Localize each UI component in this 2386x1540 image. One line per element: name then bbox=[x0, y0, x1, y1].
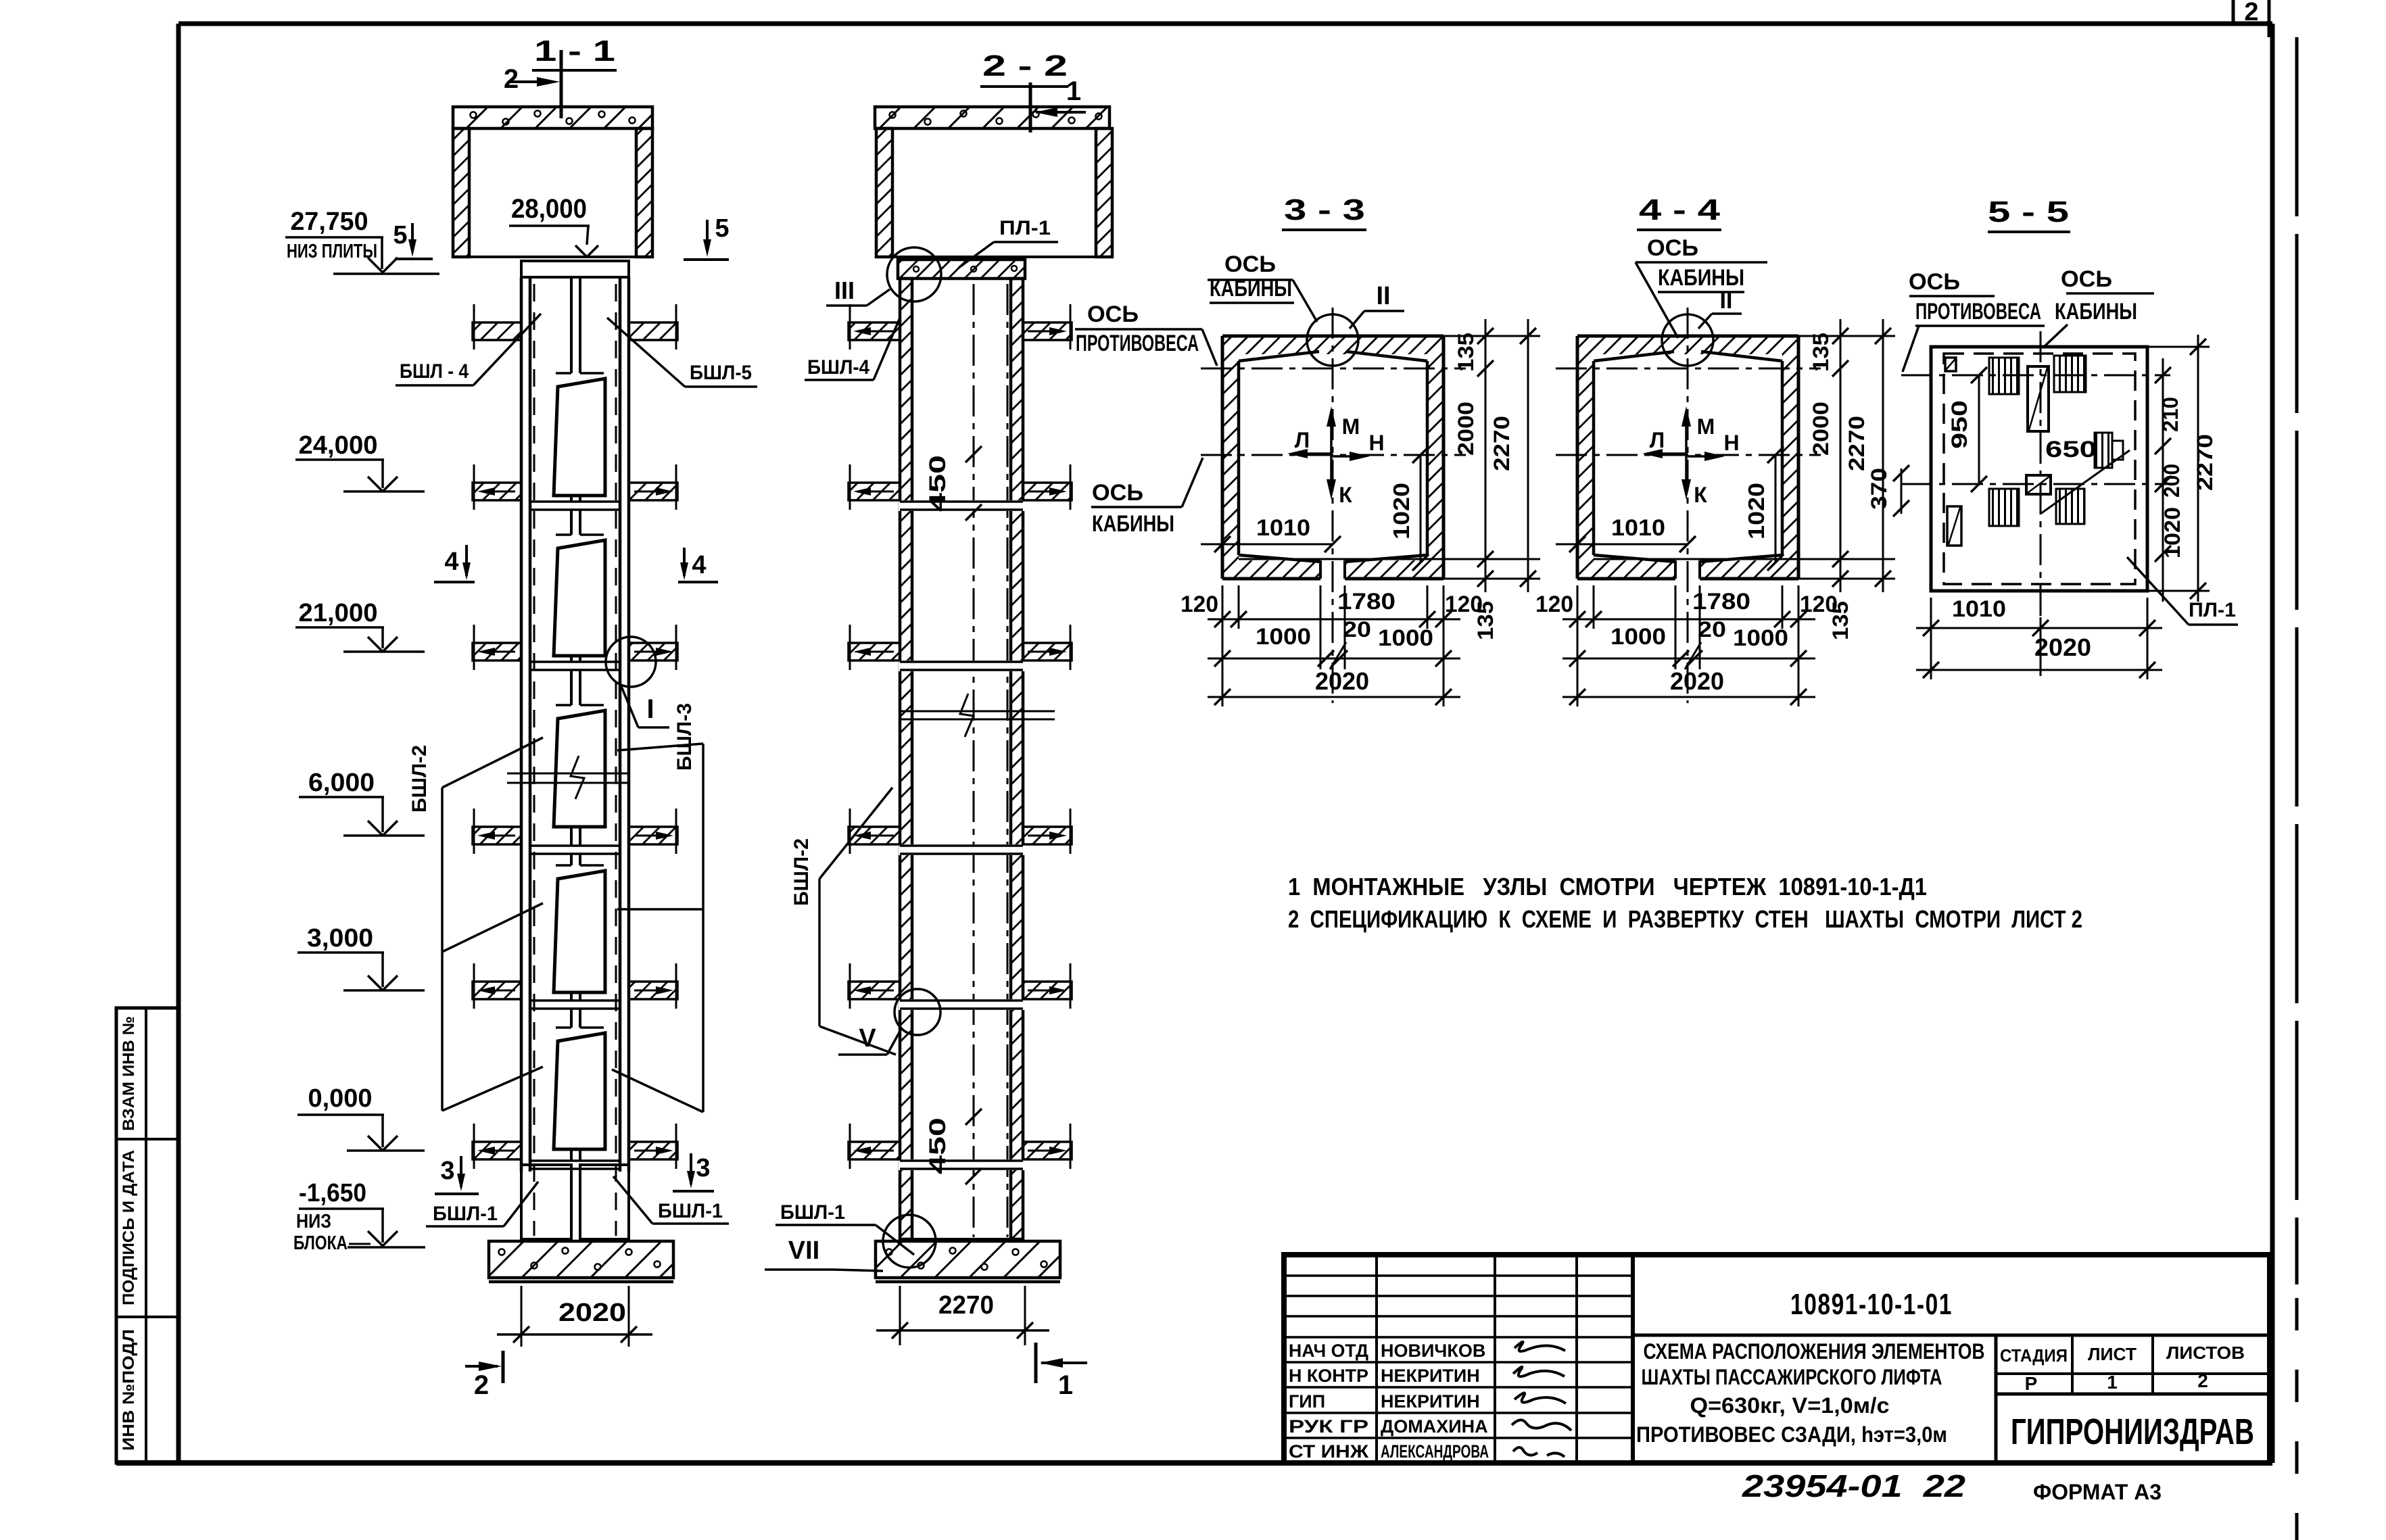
svg-text:2270: 2270 bbox=[938, 1291, 994, 1320]
svg-text:2000: 2000 bbox=[1809, 402, 1833, 456]
svg-text:1000: 1000 bbox=[1256, 624, 1311, 650]
machine room 1-1 left wall bbox=[453, 128, 469, 257]
svg-text:3 - 3: 3 - 3 bbox=[1284, 193, 1365, 226]
svg-text:ОСЬ: ОСЬ bbox=[1087, 302, 1139, 327]
svg-text:РУК ГР: РУК ГР bbox=[1289, 1416, 1368, 1437]
svg-text:21,000: 21,000 bbox=[299, 599, 378, 627]
svg-text:120: 120 bbox=[1800, 592, 1838, 617]
svg-text:5: 5 bbox=[393, 221, 407, 249]
machine room 2-2 floor line bbox=[892, 256, 1096, 258]
svg-text:НАЧ ОТД: НАЧ ОТД bbox=[1289, 1341, 1368, 1361]
svg-text:23954-01 22: 23954-01 22 bbox=[1742, 1468, 1966, 1503]
dimension 2020 below section 1-1 bbox=[521, 1286, 523, 1347]
svg-text:1010: 1010 bbox=[1611, 515, 1665, 541]
svg-text:НЕКРИТИН: НЕКРИТИН bbox=[1381, 1366, 1480, 1386]
svg-text:1020: 1020 bbox=[1744, 483, 1769, 539]
svg-text:БШЛ-5: БШЛ-5 bbox=[690, 362, 752, 384]
svg-text:3: 3 bbox=[440, 1157, 454, 1185]
svg-text:БШЛ-3: БШЛ-3 bbox=[673, 703, 696, 771]
svg-text:5 - 5: 5 - 5 bbox=[1988, 195, 2069, 228]
title block left rows bbox=[1284, 1274, 1633, 1277]
svg-text:М: М bbox=[1342, 414, 1360, 439]
detail circle VII bbox=[883, 1215, 936, 1268]
svg-text:1: 1 bbox=[1058, 1370, 1073, 1400]
shaft 2-2 right wall bbox=[1011, 279, 1023, 1239]
svg-text:Н: Н bbox=[1368, 431, 1384, 455]
shaft 2-2 left wall bbox=[900, 279, 912, 1239]
svg-text:ДОМАХИНА: ДОМАХИНА bbox=[1381, 1416, 1488, 1437]
shaft 2-2 block joints bbox=[899, 500, 1026, 511]
svg-text:2270: 2270 bbox=[1489, 416, 1514, 471]
svg-text:1 - 1: 1 - 1 bbox=[534, 34, 615, 68]
machine room 2-2 right wall bbox=[1096, 128, 1112, 257]
svg-text:28,000: 28,000 bbox=[511, 194, 587, 224]
signatures bbox=[1514, 1342, 1565, 1351]
svg-text:4 - 4: 4 - 4 bbox=[1639, 193, 1721, 226]
machine room 1-1 floor line bbox=[469, 256, 636, 258]
svg-text:БШЛ-1: БШЛ-1 bbox=[658, 1200, 723, 1222]
svg-text:БШЛ-1: БШЛ-1 bbox=[780, 1201, 845, 1224]
svg-text:НИЗ: НИЗ bbox=[296, 1211, 331, 1232]
bottom block 2-2 bbox=[912, 1238, 1011, 1241]
plan 3 - 3 counterweight axis bbox=[1201, 368, 1466, 370]
plan 4 - 4 cab axis cross bbox=[1556, 454, 1821, 456]
svg-text:2 - 2: 2 - 2 bbox=[982, 49, 1068, 82]
left margin stamp boxes bbox=[116, 1008, 178, 1463]
svg-text:Н: Н bbox=[1723, 431, 1739, 455]
title block outer bbox=[1284, 1255, 2270, 1463]
svg-text:20: 20 bbox=[1698, 617, 1726, 642]
svg-text:БШЛ-2: БШЛ-2 bbox=[790, 838, 813, 906]
svg-text:1 МОНТАЖНЫЕ УЗЛЫ СМОТРИ: 1 МОНТАЖНЫЕ УЗЛЫ СМОТРИ ЧЕРТЕЖ 10891-10-… bbox=[1288, 873, 1927, 900]
detail circle V bbox=[894, 989, 940, 1035]
svg-text:ГИПРОНИИЗДРАВ: ГИПРОНИИЗДРАВ bbox=[2011, 1412, 2254, 1452]
svg-text:Н КОНТР: Н КОНТР bbox=[1289, 1366, 1368, 1386]
svg-text:VII: VII bbox=[788, 1236, 819, 1265]
section cut marker 2 top bbox=[560, 50, 563, 118]
plan 5-5 right bracket 650 bbox=[2095, 433, 2112, 468]
svg-text:ОСЬ: ОСЬ bbox=[2061, 266, 2112, 292]
svg-text:1: 1 bbox=[2107, 1372, 2118, 1393]
shaft 1-1 right wall lines bbox=[619, 277, 622, 1172]
foundation slab 2-2 bbox=[876, 1241, 1060, 1278]
plan 3 - 3 cab axis cross bbox=[1201, 454, 1466, 456]
svg-text:I: I bbox=[646, 694, 654, 724]
machine room 1-1 right wall bbox=[636, 128, 652, 257]
plan 4 - 4 outer walls bbox=[1577, 336, 1798, 354]
title block middle split bbox=[1633, 1334, 2270, 1337]
svg-text:2020: 2020 bbox=[1315, 667, 1369, 695]
svg-text:27,750: 27,750 bbox=[291, 208, 368, 236]
svg-text:4: 4 bbox=[692, 551, 706, 579]
svg-text:КАБИНЫ: КАБИНЫ bbox=[1210, 276, 1292, 302]
axis lines cab and counterweight 2-2 bbox=[973, 284, 975, 1237]
svg-text:КАБИНЫ: КАБИНЫ bbox=[1092, 511, 1174, 537]
plan 5-5 center counterweight rail bbox=[2026, 475, 2051, 494]
svg-text:450: 450 bbox=[925, 1117, 951, 1174]
svg-text:2: 2 bbox=[504, 64, 519, 94]
svg-text:0,000: 0,000 bbox=[308, 1084, 373, 1113]
plan 3 - 3 outer walls bbox=[1222, 336, 1443, 354]
dimension 2270 below section 2-2 bbox=[899, 1286, 901, 1345]
svg-text:6,000: 6,000 bbox=[308, 769, 375, 797]
svg-text:20: 20 bbox=[1343, 617, 1371, 642]
svg-text:120: 120 bbox=[1535, 592, 1573, 617]
svg-text:Л: Л bbox=[1650, 428, 1665, 452]
svg-text:ЛИСТОВ: ЛИСТОВ bbox=[2166, 1343, 2245, 1363]
plan 3 - 3 detail circle II bbox=[1307, 314, 1358, 366]
svg-text:650: 650 bbox=[2045, 437, 2097, 462]
svg-text:5: 5 bbox=[715, 214, 729, 243]
svg-text:2: 2 bbox=[2244, 0, 2258, 26]
svg-text:ЛИСТ: ЛИСТ bbox=[2088, 1344, 2137, 1364]
svg-text:ПРОТИВОВЕСА: ПРОТИВОВЕСА bbox=[1915, 299, 2041, 324]
svg-text:ПОДПИСЬ И ДАТА: ПОДПИСЬ И ДАТА bbox=[120, 1150, 138, 1305]
svg-text:2020: 2020 bbox=[558, 1299, 626, 1327]
foundation slab 1-1 bbox=[489, 1241, 673, 1278]
plan 5-5 bottom dims bbox=[1930, 598, 1932, 679]
svg-text:ОСЬ: ОСЬ bbox=[1092, 480, 1143, 506]
svg-text:2: 2 bbox=[2197, 1370, 2208, 1391]
title block stadia list listov cells bbox=[1995, 1335, 1998, 1463]
svg-text:135: 135 bbox=[1454, 333, 1478, 372]
plan 4 - 4 counterweight axis bbox=[1556, 368, 1821, 370]
svg-text:НЕКРИТИН: НЕКРИТИН bbox=[1381, 1391, 1480, 1412]
svg-text:3: 3 bbox=[696, 1154, 710, 1182]
svg-text:ГИП: ГИП bbox=[1289, 1391, 1325, 1412]
svg-text:1010: 1010 bbox=[1952, 596, 2006, 622]
svg-text:2020: 2020 bbox=[2034, 633, 2091, 661]
title block verticals bbox=[1375, 1255, 1378, 1463]
svg-text:120: 120 bbox=[1445, 592, 1483, 617]
plan 5-5 right dims 210 200 1020 2270 bbox=[2147, 346, 2210, 348]
svg-text:КАБИНЫ: КАБИНЫ bbox=[2055, 299, 2137, 324]
svg-text:24,000: 24,000 bbox=[299, 431, 378, 460]
svg-text:ПРОТИВОВЕС СЗАДИ, hэт=3,0м: ПРОТИВОВЕС СЗАДИ, hэт=3,0м bbox=[1636, 1422, 1947, 1447]
plan 5-5 axes bbox=[1901, 375, 2170, 377]
svg-text:1020: 1020 bbox=[2160, 507, 2185, 558]
shaft 1-1 block joints bbox=[530, 500, 620, 503]
svg-text:2270: 2270 bbox=[1844, 416, 1869, 471]
svg-text:ФОРМАТ А3: ФОРМАТ А3 bbox=[2033, 1480, 2162, 1504]
svg-text:120: 120 bbox=[1180, 592, 1218, 617]
plan 3 - 3 bottom dims bbox=[1222, 585, 1224, 706]
svg-text:1: 1 bbox=[1066, 76, 1081, 106]
detail circle I bbox=[606, 637, 656, 687]
svg-text:1780: 1780 bbox=[1692, 589, 1750, 615]
svg-text:Q=630кг, V=1,0м/с: Q=630кг, V=1,0м/с bbox=[1690, 1393, 1890, 1418]
svg-text:ПРОТИВОВЕСА: ПРОТИВОВЕСА bbox=[1076, 331, 1199, 356]
svg-text:НИЗ ПЛИТЫ: НИЗ ПЛИТЫ bbox=[287, 241, 377, 262]
section cut marker 1 bottom bbox=[1034, 1343, 1038, 1383]
section cut marker 1 top bbox=[1029, 82, 1032, 133]
svg-text:Р: Р bbox=[2025, 1373, 2038, 1394]
svg-text:СХЕМА РАСПОЛОЖЕНИЯ ЭЛЕМЕНТОВ: СХЕМА РАСПОЛОЖЕНИЯ ЭЛЕМЕНТОВ bbox=[1644, 1339, 1985, 1364]
svg-text:ОСЬ: ОСЬ bbox=[1224, 251, 1276, 277]
svg-text:2: 2 bbox=[474, 1370, 489, 1400]
svg-text:1000: 1000 bbox=[1378, 625, 1433, 651]
break symbol across shaft 1-1 bbox=[507, 773, 630, 775]
plan 5-5 rail brackets bbox=[1989, 358, 2019, 394]
svg-text:III: III bbox=[834, 276, 855, 304]
page edge broken line right bbox=[2295, 37, 2299, 1284]
plan 4 - 4 inner faces bbox=[1594, 352, 1674, 361]
svg-text:К: К bbox=[1339, 483, 1352, 507]
svg-text:1010: 1010 bbox=[1256, 515, 1310, 541]
machine room 1-1 top slab bbox=[453, 107, 652, 128]
machine room 2-2 top slab bbox=[875, 107, 1110, 128]
BShL-1 bottom blocks 1-1 bbox=[521, 1165, 571, 1239]
svg-text:200: 200 bbox=[2160, 464, 2184, 498]
plan 3 - 3 right dims 135 2000 2270 bbox=[1443, 335, 1540, 337]
shaft 1-1 guide rail dashed lines bbox=[533, 284, 535, 1236]
svg-text:1020: 1020 bbox=[1389, 483, 1414, 539]
svg-text:ИНВ №ПОДЛ: ИНВ №ПОДЛ bbox=[120, 1329, 138, 1451]
shaft 1-1 door openings with leafs bbox=[570, 277, 573, 373]
svg-text:210: 210 bbox=[2158, 397, 2182, 432]
plan 4 - 4 bottom dims bbox=[1577, 585, 1579, 706]
detail circle III bbox=[887, 247, 941, 302]
break symbol across shaft 2-2 bbox=[899, 711, 1055, 713]
svg-text:2270: 2270 bbox=[2193, 434, 2217, 491]
section cut marker 2 bottom bbox=[502, 1351, 505, 1383]
plan 4 - 4 direction arrows L M N K bbox=[1685, 411, 1688, 455]
plan 3 - 3 inner faces bbox=[1239, 352, 1319, 361]
svg-text:БШЛ-2: БШЛ-2 bbox=[408, 745, 431, 813]
svg-text:450: 450 bbox=[925, 455, 951, 512]
svg-text:3,000: 3,000 bbox=[307, 924, 373, 953]
svg-text:370: 370 bbox=[1867, 468, 1891, 510]
svg-text:М: М bbox=[1697, 414, 1715, 439]
svg-text:КАБИНЫ: КАБИНЫ bbox=[1658, 265, 1744, 291]
svg-text:БШЛ-4: БШЛ-4 bbox=[807, 356, 869, 379]
svg-text:V: V bbox=[859, 1024, 876, 1053]
drawing frame border bbox=[178, 22, 2272, 26]
plan 3 - 3 direction arrows L M N K bbox=[1330, 411, 1333, 455]
svg-text:БШЛ-1: БШЛ-1 bbox=[433, 1203, 498, 1225]
svg-text:СТАДИЯ: СТАДИЯ bbox=[2000, 1345, 2068, 1366]
svg-text:К: К bbox=[1694, 483, 1707, 507]
plan 4 - 4 right dims 135 2000 2270 bbox=[1798, 335, 1895, 337]
top right page number corner bbox=[2232, 0, 2235, 23]
svg-text:1000: 1000 bbox=[1610, 624, 1666, 650]
plan 5-5 dashed shaft outline bbox=[1944, 354, 2135, 584]
svg-text:135: 135 bbox=[1809, 333, 1833, 372]
svg-text:-1,650: -1,650 bbox=[299, 1179, 366, 1207]
PL-1 slab hatched 2-2 bbox=[898, 260, 1025, 279]
shaft 1-1 left wall lines bbox=[520, 277, 523, 1172]
plan 5-5 cab guide rail bbox=[2028, 366, 2049, 431]
svg-text:БШЛ - 4: БШЛ - 4 bbox=[400, 360, 469, 383]
svg-text:950: 950 bbox=[1947, 400, 1972, 449]
plan 4 - 4 detail circle II bbox=[1662, 314, 1713, 366]
svg-text:ОСЬ: ОСЬ bbox=[1909, 269, 1960, 295]
svg-text:БЛОКА: БЛОКА bbox=[293, 1232, 348, 1254]
machine room 2-2 left wall bbox=[876, 128, 892, 257]
svg-text:СТ ИНЖ: СТ ИНЖ bbox=[1289, 1441, 1369, 1462]
svg-text:2000: 2000 bbox=[1454, 402, 1478, 456]
shaft 2-2 consoles with floor slabs bbox=[849, 322, 900, 340]
svg-text:ПЛ-1: ПЛ-1 bbox=[2189, 599, 2236, 621]
svg-text:ПЛ-1: ПЛ-1 bbox=[999, 217, 1051, 239]
svg-text:II: II bbox=[1376, 282, 1390, 310]
svg-text:1000: 1000 bbox=[1733, 625, 1788, 651]
svg-text:НОВИЧКОВ: НОВИЧКОВ bbox=[1381, 1341, 1485, 1361]
svg-text:2 СПЕЦИФИКАЦИЮ К СХЕМЕ И: 2 СПЕЦИФИКАЦИЮ К СХЕМЕ И РАЗВЕРТКУ СТЕН … bbox=[1288, 905, 2082, 933]
svg-text:ШАХТЫ ПАССАЖИРСКОГО ЛИФТА: ШАХТЫ ПАССАЖИРСКОГО ЛИФТА bbox=[1642, 1365, 1942, 1389]
svg-text:1780: 1780 bbox=[1337, 589, 1395, 615]
svg-text:АЛЕКСАНДРОВА: АЛЕКСАНДРОВА bbox=[1381, 1441, 1489, 1462]
svg-text:10891-10-1-01: 10891-10-1-01 bbox=[1790, 1288, 1953, 1321]
plan 5-5 left bracket lower bbox=[1947, 506, 1961, 546]
svg-text:4: 4 bbox=[444, 548, 458, 576]
svg-text:Л: Л bbox=[1295, 428, 1310, 452]
PL-1 slab on shaft 1-1 bbox=[521, 261, 629, 277]
svg-text:2020: 2020 bbox=[1670, 667, 1724, 695]
plan 5-5 slab outline bbox=[1931, 347, 2147, 591]
svg-text:ВЗАМ ИНВ №: ВЗАМ ИНВ № bbox=[120, 1016, 138, 1131]
shaft 1-1 consoles with floor slabs bbox=[473, 322, 521, 340]
svg-text:II: II bbox=[1720, 288, 1733, 314]
svg-text:ОСЬ: ОСЬ bbox=[1647, 235, 1698, 261]
plan 5-5 top left bracket bbox=[1945, 358, 1956, 371]
